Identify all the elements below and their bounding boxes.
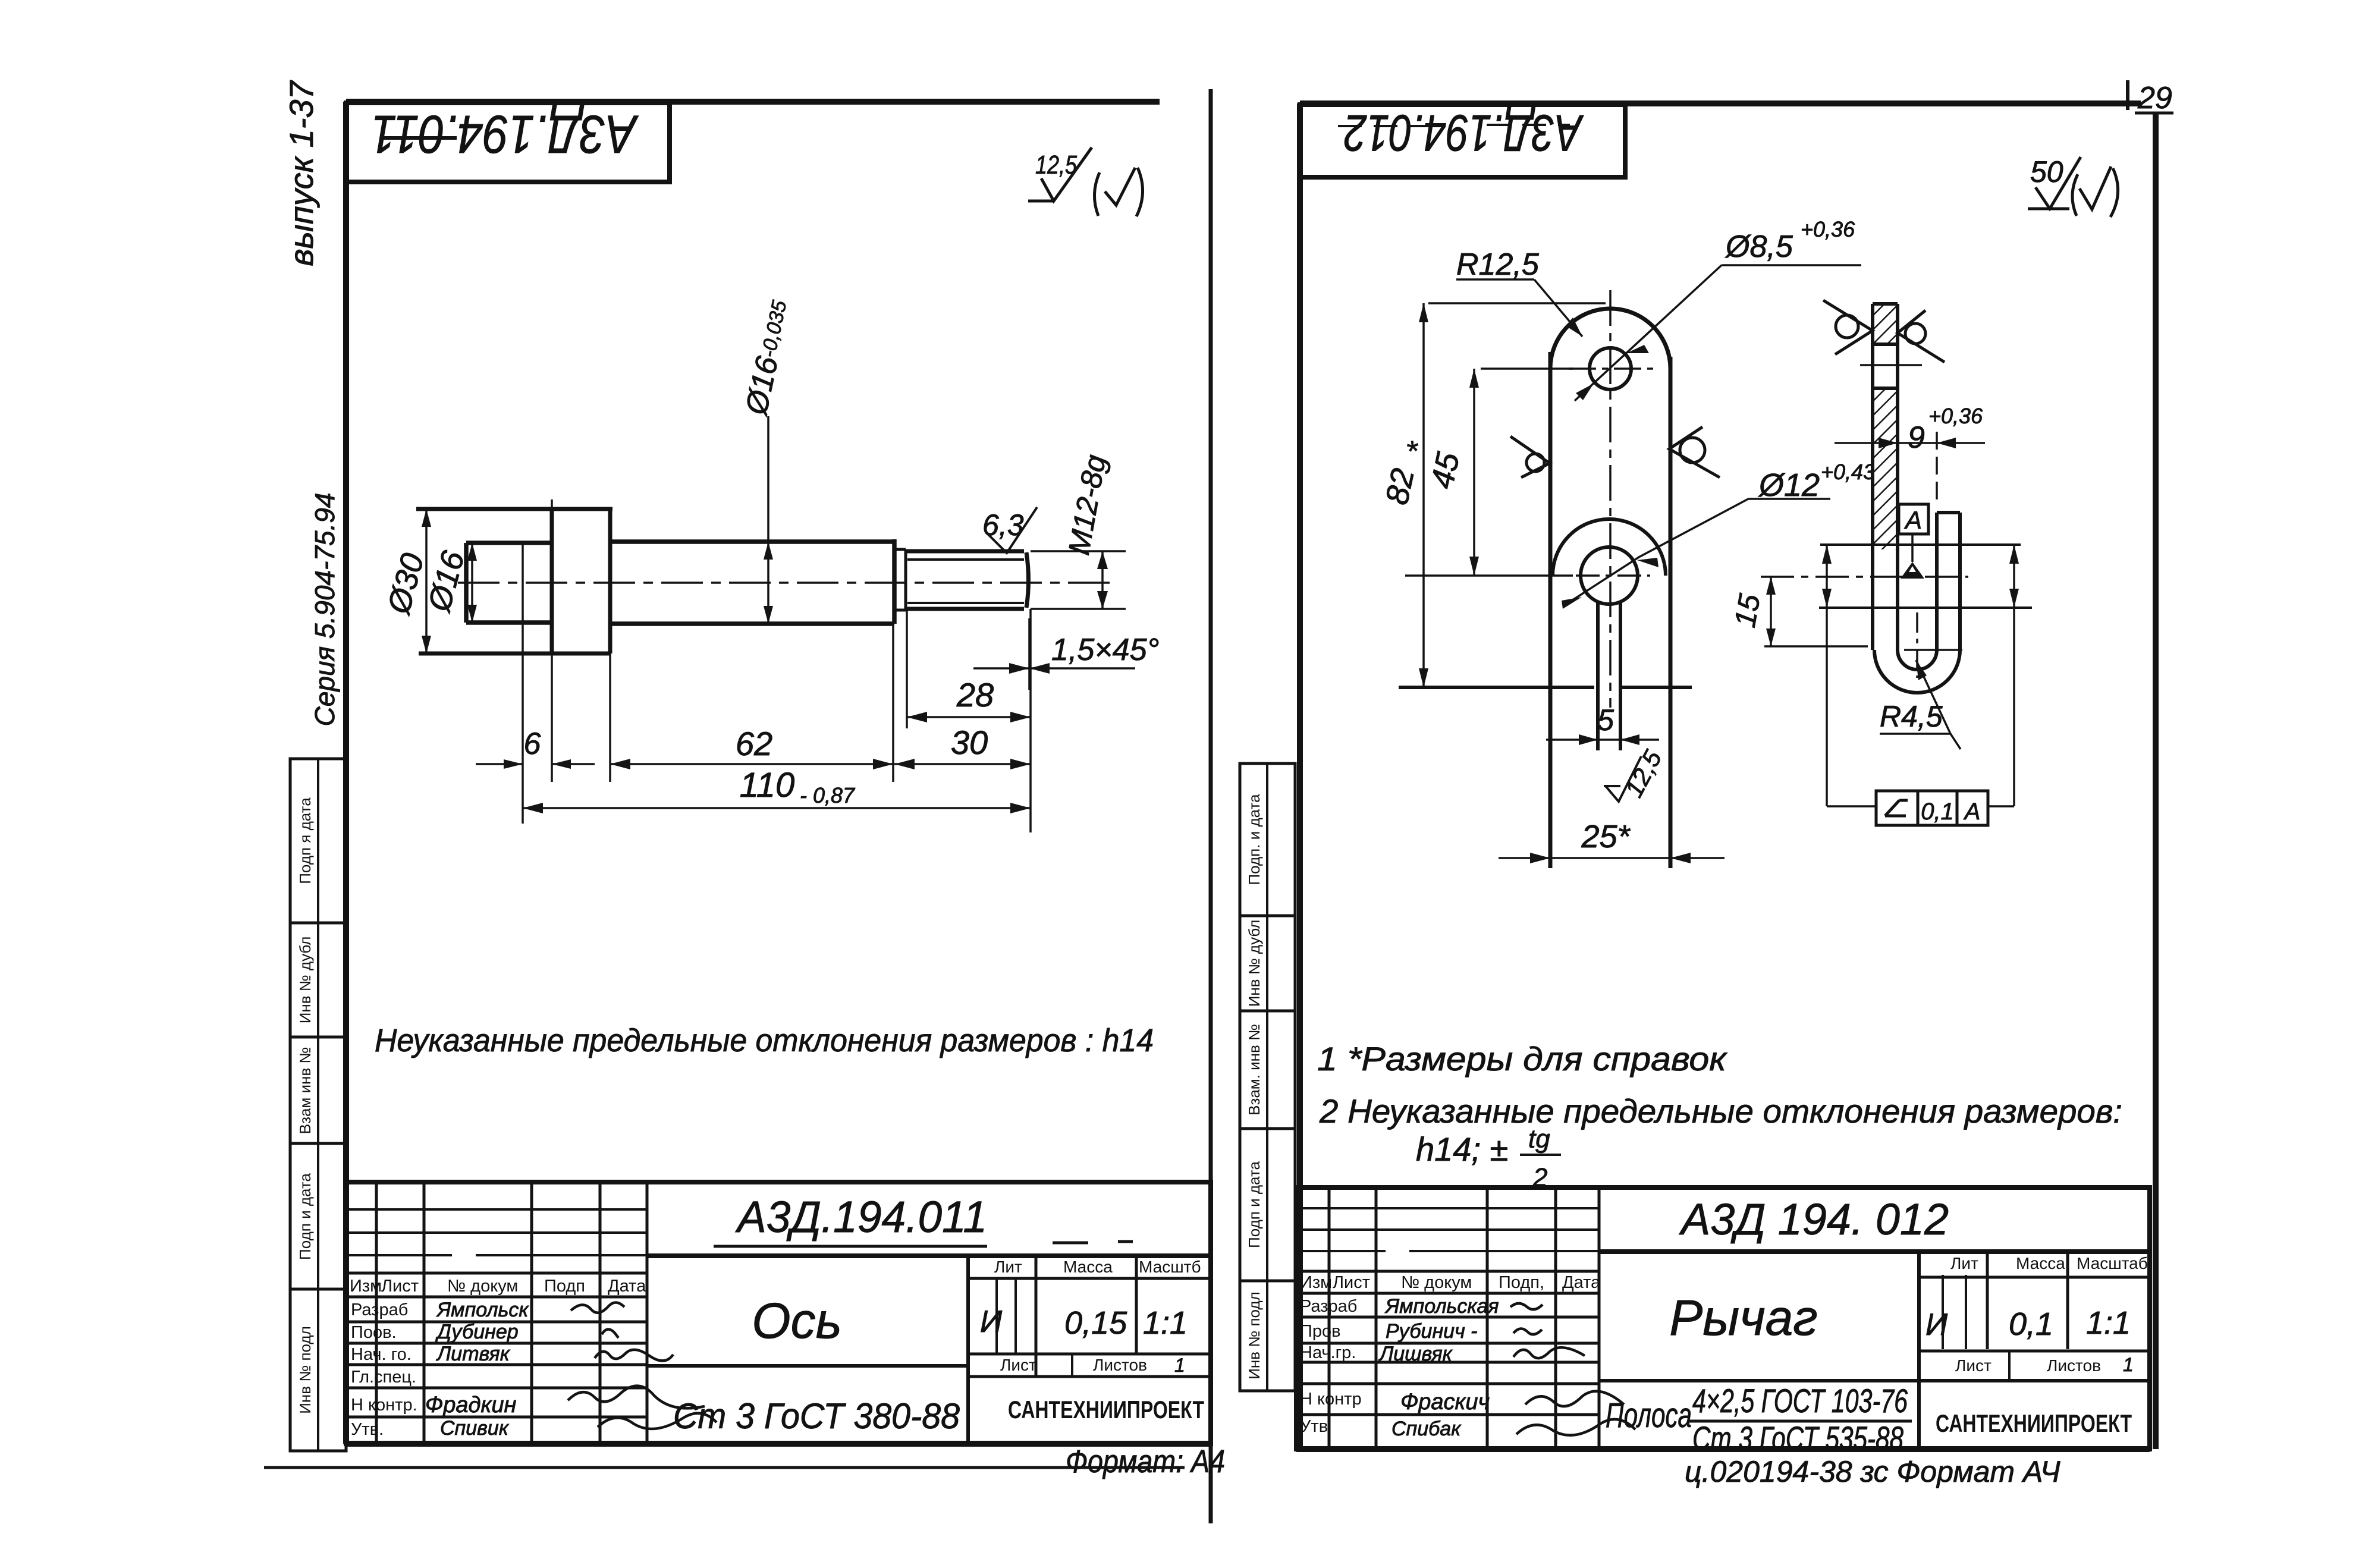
svg-text:Гл.спец.: Гл.спец. [351, 1368, 416, 1387]
svg-text:Подп я дата: Подп я дата [296, 797, 314, 884]
dim 45 [1405, 369, 1573, 576]
svg-text:6: 6 [524, 727, 541, 761]
svg-text:30: 30 [951, 724, 988, 761]
svg-text:Пров: Пров [1300, 1322, 1341, 1341]
svg-text:Подп и дата: Подп и дата [296, 1173, 314, 1259]
svg-text:28: 28 [956, 676, 994, 714]
name/material cells [1599, 1252, 2150, 1449]
bottom edge [1399, 686, 1692, 689]
svg-text:5: 5 [1597, 703, 1614, 737]
unmachined symbol right [1898, 310, 1945, 362]
svg-text:50: 50 [2030, 155, 2063, 188]
page number 29 [2128, 80, 2173, 115]
vertical leaders to tolerance frame [1822, 545, 2019, 806]
svg-text:Лист: Лист [1000, 1356, 1036, 1374]
divider line between sheets [1209, 89, 1213, 1523]
svg-text:Ст 3 ГоСТ 535-88: Ст 3 ГоСТ 535-88 [1692, 1419, 1903, 1457]
svg-text:ц.020194-38 зс Формат АЧ: ц.020194-38 зс Формат АЧ [1685, 1455, 2060, 1488]
svg-text:Масса: Масса [1063, 1258, 1113, 1276]
svg-text:А3Д.194.011: А3Д.194.011 [371, 104, 639, 164]
diameter 30 dimension [381, 509, 431, 653]
svg-text:Ø16-0,035: Ø16-0,035 [739, 297, 797, 419]
left title block [346, 1182, 1211, 1444]
svg-text:Лит: Лит [1950, 1254, 1978, 1272]
svg-text:62: 62 [736, 725, 772, 762]
header row lines [1296, 1271, 1599, 1293]
svg-text:САНТЕХНИИПРОЕКТ: САНТЕХНИИПРОЕКТ [1936, 1409, 2132, 1437]
svg-text:Взам. инв №: Взам. инв № [1245, 1024, 1263, 1115]
main shaft outline [610, 539, 894, 624]
svg-text:М12-8g: М12-8g [1062, 453, 1113, 558]
right title block handwritten entries [1378, 1195, 2131, 1457]
svg-text:1,5×45°: 1,5×45° [1051, 633, 1159, 667]
svg-text:Формат: А4: Формат: А4 [1066, 1444, 1225, 1479]
diameter 16-0.035 dimension [739, 297, 797, 624]
svg-text:Фраскич: Фраскич [1400, 1390, 1490, 1415]
left outer strip boxes [290, 759, 346, 1451]
svg-text:Изм: Изм [350, 1277, 382, 1296]
svg-text:Спибак: Спибак [1391, 1418, 1462, 1440]
stamp box A3D.194.011 (upside down) [346, 103, 670, 182]
svg-text:Рычаг: Рычаг [1669, 1290, 1817, 1346]
left sheet note text [375, 1023, 1154, 1058]
title block handwritten entries [425, 1192, 1188, 1440]
label d12+0,43 with leader [1562, 460, 1875, 609]
svg-text:Ø12: Ø12 [1758, 467, 1820, 503]
svg-text:2 Неуказанные предельные отк: 2 Неуказанные предельные отклонения разм… [1319, 1092, 2122, 1130]
U bend inner arc [1898, 650, 1937, 670]
dim 110-0.87 [523, 766, 1031, 813]
svg-text:Лист: Лист [1333, 1273, 1370, 1292]
svg-text:Утв: Утв [1300, 1417, 1328, 1436]
dim 25* [1499, 819, 1725, 863]
svg-text:Дата: Дата [608, 1277, 646, 1296]
centerline horizontal [1761, 576, 1968, 578]
svg-text:R4,5: R4,5 [1880, 700, 1943, 733]
dim 6 [476, 727, 595, 769]
svg-text:Дата: Дата [1562, 1273, 1601, 1292]
svg-text:Инв № подл: Инв № подл [296, 1326, 314, 1414]
svg-text:R12,5: R12,5 [1456, 247, 1540, 282]
right sheet frame [1296, 103, 2156, 1449]
svg-text:А: А [1964, 799, 1981, 825]
column lines left part [1329, 1187, 1599, 1449]
svg-text:САНТЕХНИИПРОЕКТ: САНТЕХНИИПРОЕКТ [1008, 1396, 1204, 1424]
svg-text:Утв.: Утв. [351, 1420, 384, 1439]
svg-text:Н контр.: Н контр. [351, 1396, 417, 1415]
svg-text:Масса: Масса [2016, 1254, 2065, 1272]
right title block [1296, 1187, 2150, 1457]
svg-text:1: 1 [1174, 1355, 1185, 1376]
svg-text:Разраб: Разраб [351, 1300, 408, 1319]
dim 9+0,36 [1835, 404, 1985, 505]
thread extension lines to M12 dim [1031, 551, 1126, 609]
datum A box [1899, 504, 1928, 579]
centerline of shaft axis [458, 582, 1118, 584]
designation cell split [647, 1253, 1211, 1258]
svg-text:9: 9 [1908, 420, 1925, 455]
svg-text:4×2,5 ГОСТ 103-76: 4×2,5 ГОСТ 103-76 [1692, 1382, 1908, 1419]
svg-text:Спивик: Спивик [440, 1417, 510, 1440]
material underline [1689, 1420, 1912, 1423]
hole centerline tick [1860, 364, 1922, 366]
upper small revision rows [1296, 1208, 1599, 1251]
header row lines [346, 1273, 647, 1297]
dim 15 [1728, 577, 1868, 646]
vertical centerline [1609, 290, 1612, 708]
svg-text:+0,36: +0,36 [1928, 404, 1983, 428]
lever side view [1728, 300, 2032, 825]
svg-text:Нач.гр.: Нач.гр. [1300, 1343, 1356, 1362]
flange outline [416, 509, 612, 653]
svg-text:Взам инв №: Взам инв № [296, 1047, 314, 1135]
name/material cells [647, 1256, 968, 1444]
svg-text:+0,43: +0,43 [1821, 460, 1875, 484]
vertical margin text: vypusk 1-37 [282, 80, 320, 266]
svg-text:45: 45 [1424, 449, 1466, 492]
svg-text:А3Д.194.011: А3Д.194.011 [735, 1192, 987, 1242]
svg-text:82: 82 [1379, 466, 1421, 508]
bottom handwritten note [1685, 1455, 2060, 1488]
title block texts printed [350, 1258, 1204, 1439]
roughness flag 12,5 slot [1604, 745, 1667, 802]
svg-text:0,15: 0,15 [1064, 1305, 1127, 1341]
extension lines for 6 / 62 / 30 / 110 dims [523, 499, 1031, 832]
svg-text:h14; ±: h14; ± [1416, 1130, 1508, 1168]
keyhole slot [1598, 602, 1620, 750]
left sheet frame [346, 102, 1211, 1444]
lower hole horizontal centerline [1576, 574, 1650, 577]
mouth line upper [1820, 543, 2021, 546]
svg-text:Инв № дубл: Инв № дубл [1245, 920, 1263, 1007]
svg-text:А3Д.194.012: А3Д.194.012 [1344, 104, 1584, 161]
stamp box A3D.194.012 (upside down) [1300, 104, 1625, 177]
right signatures squiggles [1510, 1303, 1635, 1435]
svg-text:110: 110 [740, 766, 794, 805]
vertical margin text: Seriya 5.904-75.94 [309, 493, 340, 727]
svg-text:Поов.: Поов. [351, 1323, 397, 1342]
svg-text:Инв № дубл: Инв № дубл [296, 937, 314, 1024]
svg-text:Литвяк: Литвяк [436, 1343, 511, 1365]
lit massa masshtab grid [968, 1256, 1211, 1377]
lever front view [1379, 217, 1875, 868]
roughness check right [1669, 427, 1720, 477]
U slot vertical centerline [1916, 612, 1918, 678]
svg-text:25*: 25* [1581, 819, 1631, 854]
bottom long line [264, 1466, 1185, 1469]
svg-text:29: 29 [2137, 81, 2172, 115]
roughness group 50 top right [2028, 155, 2118, 217]
diameter 16 stub dimension [421, 543, 477, 623]
svg-text:0,1: 0,1 [1921, 799, 1954, 825]
svg-text:1:1: 1:1 [1143, 1305, 1188, 1341]
outer bold border [1296, 1187, 2150, 1449]
row lines [346, 1322, 647, 1417]
right sheet notes [1317, 1040, 2122, 1192]
right outer strip boxes [1240, 763, 1295, 1391]
label R4,5 with leader [1880, 660, 1961, 749]
upper hole d8.5 [1590, 348, 1631, 389]
roughness check left [1510, 436, 1550, 477]
LEFT SHEET GROUP [264, 80, 1225, 1523]
bar outline [1873, 304, 1898, 650]
svg-text:Лист: Лист [1955, 1356, 1992, 1375]
svg-text:№ докум: № докум [1401, 1273, 1472, 1292]
svg-text:Подп,: Подп, [1499, 1273, 1544, 1292]
left stub outline [466, 543, 552, 623]
svg-text:А3Д 194. 012: А3Д 194. 012 [1679, 1195, 1949, 1244]
svg-text:Разраб: Разраб [1300, 1297, 1357, 1316]
RIGHT SHEET GROUP [1240, 80, 2173, 1488]
svg-text:Листов: Листов [2047, 1356, 2101, 1375]
dim 5 slot [1546, 703, 1659, 745]
svg-text:Масштаб: Масштаб [2077, 1254, 2148, 1272]
svg-text:Изм: Изм [1300, 1273, 1332, 1292]
svg-text:*: * [1400, 439, 1435, 458]
outer bold border [346, 1182, 1211, 1444]
label R12,5 with leader [1456, 247, 1582, 337]
dim 62 [610, 725, 893, 769]
svg-text:+0,36: +0,36 [1801, 217, 1855, 241]
right upright [1937, 513, 1960, 650]
signatures squiggles [568, 1302, 717, 1429]
svg-text:Рубинич -: Рубинич - [1386, 1320, 1477, 1343]
svg-text:№ докум: № докум [447, 1277, 518, 1296]
svg-text:Ось: Ось [752, 1293, 842, 1349]
svg-text:А: А [1903, 506, 1922, 534]
thread neck [894, 549, 906, 610]
svg-text:Подп и дата: Подп и дата [1245, 1161, 1263, 1248]
row lines [1296, 1317, 1599, 1415]
unmachined symbol left [1823, 300, 1873, 354]
svg-text:Ямпольская: Ямпольская [1384, 1295, 1499, 1318]
dim 30 [894, 724, 1031, 769]
svg-text:Ямпольск': Ямпольск' [436, 1299, 533, 1321]
M12-8g dimension [1062, 453, 1113, 609]
svg-text:Ø30: Ø30 [381, 549, 431, 618]
svg-text:12,5: 12,5 [1619, 745, 1667, 802]
svg-text:Дубинер: Дубинер [435, 1321, 519, 1343]
svg-text:Фрадкин: Фрадкин [425, 1393, 517, 1418]
roughness flag 6,3 on thread [982, 507, 1037, 553]
svg-text:Лист: Лист [381, 1277, 419, 1296]
svg-text:Масштб: Масштб [1139, 1258, 1201, 1276]
designation cell split [1599, 1249, 2150, 1254]
svg-text:Нач. го.: Нач. го. [351, 1345, 412, 1364]
svg-text:Ø8,5: Ø8,5 [1725, 230, 1793, 264]
upper small revision rows [346, 1209, 647, 1255]
right title block texts printed [1300, 1254, 2148, 1437]
svg-text:0,1: 0,1 [2009, 1306, 2053, 1342]
svg-text:Лит: Лит [994, 1258, 1022, 1276]
dim 28 [907, 676, 1031, 722]
upper hole horizontal centerline [1569, 367, 1653, 370]
svg-text:Неуказанные предельные откло: Неуказанные предельные отклонения размер… [375, 1023, 1154, 1058]
column lines left part [376, 1182, 647, 1444]
svg-text:Полоса: Полоса [1606, 1396, 1692, 1435]
svg-text:Н контр: Н контр [1300, 1390, 1362, 1409]
svg-text:Серия 5.904-75.94: Серия 5.904-75.94 [309, 493, 340, 727]
svg-text:1:1: 1:1 [2086, 1305, 2131, 1341]
body side lines with extensions [1550, 352, 1670, 868]
svg-text:1 *Размеры для справок: 1 *Размеры для справок [1317, 1040, 1728, 1077]
shaft axle drawing [381, 297, 1159, 832]
designation underline dashes [714, 1242, 1133, 1246]
svg-text:Инв № подл: Инв № подл [1245, 1292, 1263, 1380]
svg-text:Ст 3 ГоСТ 380-88: Ст 3 ГоСТ 380-88 [673, 1396, 960, 1436]
svg-text:tg: tg [1528, 1124, 1550, 1154]
svg-text:Лишвяк: Лишвяк [1378, 1343, 1453, 1365]
svg-text:И: И [980, 1305, 1003, 1339]
arc center tick [1904, 649, 1962, 651]
label d8,5+0,36 with leader [1575, 217, 1861, 401]
U bend outer arc [1874, 650, 1960, 693]
tolerance frame Z 0,1 A [1827, 791, 2014, 825]
top arc [1550, 309, 1670, 369]
svg-text:- 0,87: - 0,87 [800, 783, 856, 807]
format A4 note [1066, 1444, 1225, 1479]
counterbore arc R12.5 [1553, 519, 1666, 576]
lower hole d12 [1581, 547, 1638, 604]
svg-text:выпуск 1-37: выпуск 1-37 [282, 80, 320, 266]
thread outline M12 [906, 551, 1029, 609]
svg-text:Подп: Подп [544, 1277, 585, 1296]
svg-text:Листов: Листов [1093, 1356, 1147, 1374]
svg-text:1: 1 [2123, 1354, 2134, 1375]
svg-text:15: 15 [1728, 592, 1767, 630]
chamfer dim 1,5x45 [973, 618, 1159, 690]
svg-text:Подп. и дата: Подп. и дата [1245, 794, 1263, 885]
mouth line lower [1819, 607, 2032, 609]
svg-text:И: И [1925, 1308, 1948, 1342]
dim 82* [1379, 303, 1606, 687]
roughness group 12,5 top right [1028, 147, 1143, 216]
lit massa masshtab grid [1919, 1252, 2150, 1381]
hatched bar sections [1873, 304, 1898, 549]
